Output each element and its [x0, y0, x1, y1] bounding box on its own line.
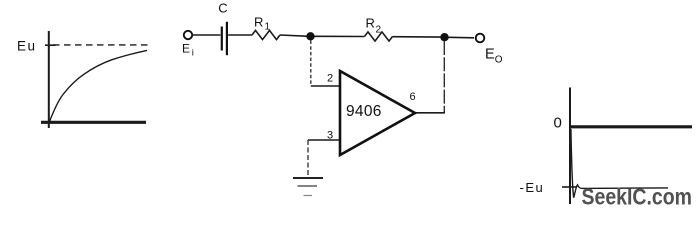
svg-text:1: 1	[265, 22, 271, 33]
svg-text:0: 0	[554, 115, 562, 132]
svg-text:R: R	[254, 15, 263, 30]
svg-text:i: i	[192, 48, 194, 59]
svg-text:2: 2	[376, 25, 382, 36]
svg-text:O: O	[495, 54, 503, 65]
svg-text:-Eu: -Eu	[520, 180, 545, 195]
svg-text:Eu: Eu	[17, 39, 37, 54]
svg-text:E: E	[485, 46, 495, 62]
svg-text:9406: 9406	[346, 103, 382, 120]
svg-text:E: E	[182, 42, 190, 56]
svg-text:C: C	[218, 1, 227, 16]
svg-text:2: 2	[327, 73, 333, 85]
svg-text:6: 6	[410, 91, 416, 103]
svg-text:SeekIC.com: SeekIC.com	[582, 183, 693, 210]
svg-text:R: R	[366, 16, 375, 31]
